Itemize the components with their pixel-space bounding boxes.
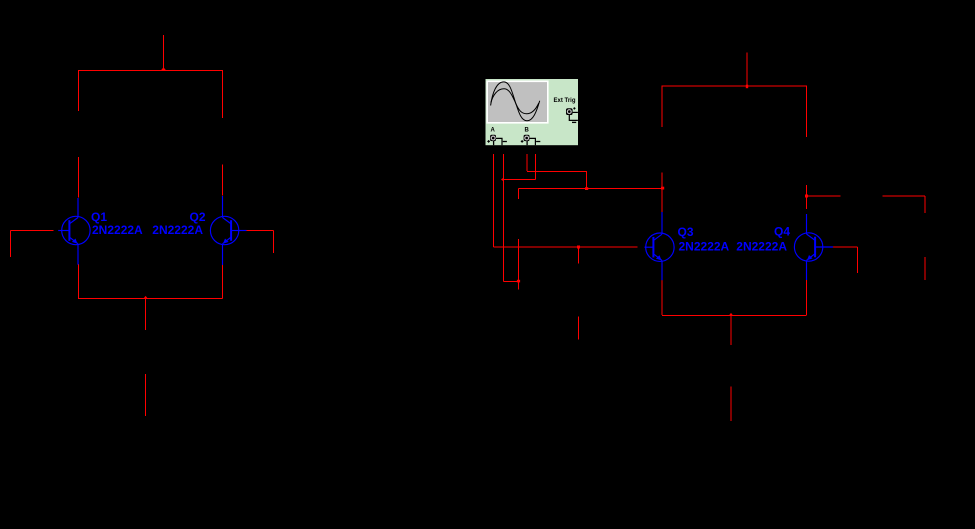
wire VCC2 stub xyxy=(746,53,748,86)
wire left tail upper xyxy=(145,299,147,331)
wire B+ run right xyxy=(527,171,587,173)
wire node row to Q3 collector branch xyxy=(519,188,663,190)
wire A- to mid node xyxy=(504,281,519,283)
junction base rail R6 node xyxy=(577,246,580,249)
terminal B xyxy=(524,135,530,141)
svg-text:Q1: Q1 xyxy=(91,210,107,224)
wire output right segment xyxy=(883,195,926,197)
wire right top rail xyxy=(662,85,807,87)
wire R6 branch upper xyxy=(578,247,580,264)
wire Q4 base lead out xyxy=(833,246,858,248)
junction left tail tee xyxy=(144,296,147,298)
wire Q4 base drop xyxy=(857,247,859,273)
ext trig terminal xyxy=(566,108,573,115)
wire Q2 base lead out xyxy=(247,230,274,232)
svg-text:2N2222A: 2N2222A xyxy=(152,223,203,237)
wire left branch upper (to R1) xyxy=(78,70,80,111)
wire right ckt right branch upper (to R4) xyxy=(806,86,808,138)
oscilloscope XSC1 xyxy=(486,79,579,145)
svg-text:Ext Trig: Ext Trig xyxy=(554,98,576,104)
wire Q2 emitter down xyxy=(222,265,224,299)
svg-text:2N2222A: 2N2222A xyxy=(92,223,143,237)
wire output drop lower (RL to gnd) xyxy=(924,257,926,280)
wire left branch lower (R1 to Q1 collector) xyxy=(78,157,80,198)
junction right tail tee xyxy=(729,313,732,315)
wire left tail lower xyxy=(145,374,147,416)
wire mid vertical lower (R5 to A- node) xyxy=(518,239,520,290)
wire right tail upper xyxy=(730,316,732,346)
wire Q2 base drop xyxy=(273,231,275,254)
terminal A xyxy=(490,135,496,141)
scope trace A xyxy=(491,82,540,121)
wire right ckt right branch lower (R4 to Q4) xyxy=(806,185,808,209)
svg-text:A: A xyxy=(491,128,496,134)
wire scope A- drop xyxy=(503,154,505,282)
svg-text:2N2222A: 2N2222A xyxy=(679,240,730,254)
wire Q1 emitter down xyxy=(78,264,80,299)
wire right ckt left branch upper (to R3) xyxy=(661,86,663,128)
svg-text:B: B xyxy=(525,128,530,134)
svg-text:Q2: Q2 xyxy=(189,210,205,224)
svg-text:Q3: Q3 xyxy=(678,225,694,239)
junction VCC1 tee xyxy=(161,67,166,70)
junction B+ node xyxy=(585,187,588,190)
junction A- node xyxy=(517,280,520,283)
wire V1 drop xyxy=(10,231,12,258)
wire right branch lower (R2 to Q2 collector) xyxy=(222,165,224,196)
junction VCC2 tee xyxy=(746,85,748,89)
wire scope B- drop xyxy=(535,154,537,180)
wire right branch upper (to R2) xyxy=(222,70,224,118)
wire scope A+ drop xyxy=(493,154,495,247)
transistor Q2 (2N2222A) xyxy=(152,196,246,265)
transistor Q3 (2N2222A) xyxy=(645,212,730,280)
wire Q3 emitter down xyxy=(661,280,663,315)
wire R6 branch lower xyxy=(578,317,580,340)
junction B- onto A- xyxy=(501,178,504,181)
wire right bottom rail xyxy=(662,315,807,317)
svg-text:2N2222A: 2N2222A xyxy=(736,240,787,254)
wire B+ down to node xyxy=(586,171,588,189)
junction Q4 collector output node xyxy=(805,195,808,198)
wire output node left segment xyxy=(807,195,841,197)
wire output drop upper (to RL) xyxy=(924,196,926,213)
junction node row onto Q3 branch xyxy=(661,187,664,190)
wire right ckt left branch lower (R3 to Q3) xyxy=(661,173,663,213)
wire VCC1 stub xyxy=(163,35,165,70)
wire B- run left xyxy=(504,179,536,181)
wire Q4 emitter down xyxy=(806,280,808,315)
transistor Q4 (2N2222A) xyxy=(736,214,833,280)
wire left bottom rail xyxy=(78,298,223,300)
wire right tail lower xyxy=(730,387,732,422)
scope trace B xyxy=(491,89,539,114)
transistor Q1 (2N2222A) xyxy=(58,198,143,265)
wire scope B+ drop xyxy=(526,154,528,171)
svg-text:Q4: Q4 xyxy=(774,225,790,239)
wire left top rail xyxy=(78,70,223,72)
wire mid vertical upper (to R5) xyxy=(518,189,520,200)
wire base rail to Q3 xyxy=(494,246,638,248)
wire Q1 base to V1 xyxy=(11,230,54,232)
